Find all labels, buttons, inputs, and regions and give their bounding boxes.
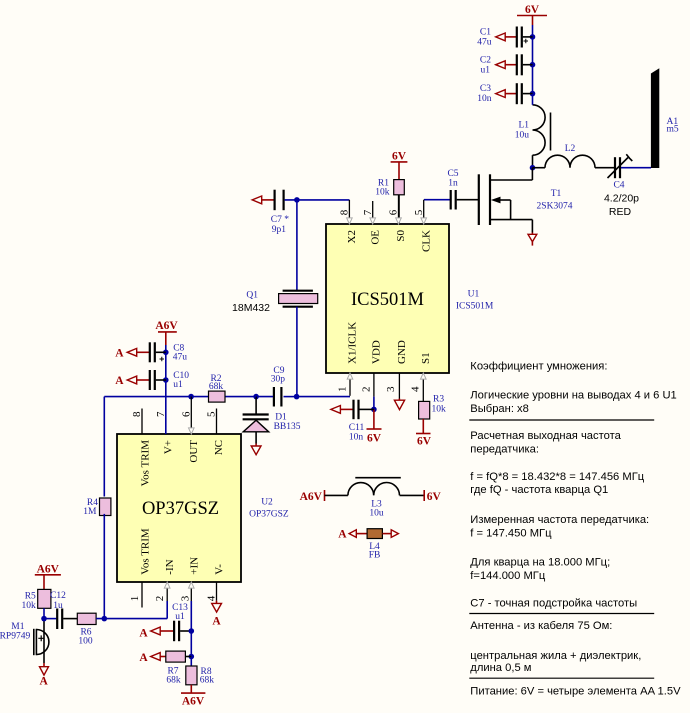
svg-text:L2: L2 bbox=[565, 144, 576, 154]
svg-text:C11: C11 bbox=[349, 423, 365, 433]
svg-text:V-: V- bbox=[214, 564, 226, 575]
svg-text:9p1: 9p1 bbox=[272, 225, 287, 235]
svg-text:C7 - точная подстройка частоты: C7 - точная подстройка частоты bbox=[470, 597, 637, 609]
svg-text:U1: U1 bbox=[468, 290, 480, 300]
svg-text:10k: 10k bbox=[375, 188, 390, 198]
svg-text:S1: S1 bbox=[420, 352, 432, 364]
svg-text:4: 4 bbox=[410, 386, 422, 392]
svg-text:100: 100 bbox=[78, 637, 93, 647]
svg-text:центральная жила + диэлектрик,: центральная жила + диэлектрик, bbox=[470, 650, 641, 662]
svg-text:2SK3074: 2SK3074 bbox=[537, 202, 573, 212]
svg-text:6V: 6V bbox=[367, 433, 382, 445]
svg-text:68k: 68k bbox=[200, 676, 215, 686]
svg-text:68k: 68k bbox=[166, 676, 181, 686]
svg-text:10k: 10k bbox=[432, 405, 447, 415]
svg-text:1M: 1M bbox=[83, 507, 97, 517]
svg-text:f = fQ*8 = 18.432*8 = 147.456: f = fQ*8 = 18.432*8 = 147.456 МГц bbox=[470, 471, 644, 483]
svg-text:RED: RED bbox=[609, 206, 632, 218]
svg-text:7: 7 bbox=[362, 209, 374, 215]
svg-text:6V: 6V bbox=[417, 436, 432, 448]
svg-text:3: 3 bbox=[180, 595, 192, 601]
svg-text:18M432: 18M432 bbox=[232, 302, 270, 314]
svg-text:CLK: CLK bbox=[420, 230, 432, 252]
svg-text:NC: NC bbox=[213, 440, 225, 455]
svg-text:A: A bbox=[139, 652, 148, 664]
svg-text:-IN: -IN bbox=[164, 559, 176, 574]
svg-text:6: 6 bbox=[180, 411, 192, 417]
svg-text:C2: C2 bbox=[480, 55, 491, 65]
svg-text:ICS501M: ICS501M bbox=[351, 290, 424, 310]
svg-text:L1: L1 bbox=[518, 121, 529, 131]
svg-text:u1: u1 bbox=[173, 380, 183, 390]
svg-text:FB: FB bbox=[369, 551, 381, 561]
svg-text:Q1: Q1 bbox=[246, 291, 258, 301]
svg-text:VDD: VDD bbox=[371, 340, 383, 364]
svg-text:A: A bbox=[40, 676, 49, 688]
svg-text:6V: 6V bbox=[427, 491, 442, 503]
svg-text:S0: S0 bbox=[395, 230, 407, 242]
svg-text:Питание: 6V = четыре элемента: Питание: 6V = четыре элемента AA 1.5V bbox=[470, 686, 681, 698]
svg-text:1: 1 bbox=[337, 387, 349, 393]
svg-text:10u: 10u bbox=[369, 509, 384, 519]
svg-text:передатчика:: передатчика: bbox=[470, 444, 539, 456]
svg-text:A6V: A6V bbox=[300, 491, 323, 503]
svg-text:C1: C1 bbox=[480, 28, 491, 38]
svg-text:Для кварца на 18.000 МГц;: Для кварца на 18.000 МГц; bbox=[470, 557, 610, 569]
svg-text:D1: D1 bbox=[275, 412, 287, 422]
svg-text:V+: V+ bbox=[163, 440, 175, 454]
svg-text:A: A bbox=[338, 529, 347, 541]
svg-text:Vos TRIM: Vos TRIM bbox=[139, 440, 151, 487]
svg-text:R5: R5 bbox=[25, 591, 36, 601]
svg-text:10k: 10k bbox=[22, 601, 37, 611]
svg-text:10u: 10u bbox=[515, 131, 530, 141]
svg-text:Логические уровни на выводах 4: Логические уровни на выводах 4 и 6 U1 bbox=[470, 390, 676, 402]
svg-text:OE: OE bbox=[369, 230, 381, 245]
svg-text:U2: U2 bbox=[261, 498, 273, 508]
svg-text:6V: 6V bbox=[525, 4, 540, 16]
svg-text:ICS501M: ICS501M bbox=[456, 302, 494, 312]
svg-text:1: 1 bbox=[129, 596, 141, 602]
svg-text:10n: 10n bbox=[349, 433, 364, 443]
svg-text:f=144.000 МГц: f=144.000 МГц bbox=[470, 570, 546, 582]
svg-text:6: 6 bbox=[388, 209, 400, 215]
svg-text:C4: C4 bbox=[613, 181, 624, 191]
svg-text:A: A bbox=[139, 628, 148, 640]
svg-text:X1/ICLK: X1/ICLK bbox=[347, 322, 359, 364]
svg-text:8: 8 bbox=[339, 209, 351, 215]
svg-text:4.2/20p: 4.2/20p bbox=[604, 193, 639, 205]
svg-text:OUT: OUT bbox=[188, 440, 200, 463]
svg-text:Выбран: x8: Выбран: x8 bbox=[470, 403, 529, 415]
svg-text:6V: 6V bbox=[392, 151, 407, 163]
svg-text:A: A bbox=[212, 616, 221, 628]
svg-text:10n: 10n bbox=[477, 94, 492, 104]
svg-text:T1: T1 bbox=[551, 189, 562, 199]
svg-text:A6V: A6V bbox=[182, 695, 205, 707]
svg-text:BB135: BB135 bbox=[274, 422, 301, 432]
svg-text:+IN: +IN bbox=[189, 557, 201, 575]
svg-text:A6V: A6V bbox=[37, 564, 60, 576]
svg-text:47u: 47u bbox=[477, 38, 492, 48]
svg-text:OP37GSZ: OP37GSZ bbox=[249, 510, 289, 520]
svg-text:8: 8 bbox=[131, 411, 143, 417]
svg-text:C5: C5 bbox=[447, 169, 458, 179]
svg-text:X2: X2 bbox=[346, 230, 358, 243]
svg-text:OP37GSZ: OP37GSZ bbox=[142, 499, 219, 519]
svg-text:Vos TRIM: Vos TRIM bbox=[139, 528, 151, 575]
svg-text:2: 2 bbox=[154, 596, 166, 602]
svg-text:где fQ - частота кварца Q1: где fQ - частота кварца Q1 bbox=[470, 484, 608, 496]
svg-text:m5: m5 bbox=[667, 125, 679, 135]
svg-text:30p: 30p bbox=[271, 375, 286, 385]
svg-text:3: 3 bbox=[385, 386, 397, 392]
svg-text:C3: C3 bbox=[480, 84, 491, 94]
svg-text:A: A bbox=[115, 375, 124, 387]
svg-text:длина 0,5 м: длина 0,5 м bbox=[470, 662, 531, 674]
svg-text:RP9749: RP9749 bbox=[0, 631, 30, 641]
svg-text:68k: 68k bbox=[209, 382, 224, 392]
svg-text:47u: 47u bbox=[173, 353, 188, 363]
svg-text:f = 147.450 МГц: f = 147.450 МГц bbox=[470, 528, 552, 540]
svg-text:A: A bbox=[115, 348, 124, 360]
svg-text:Коэффициент умножения:: Коэффициент умножения: bbox=[470, 361, 607, 373]
svg-text:2: 2 bbox=[361, 387, 373, 393]
svg-text:Антенна - из кабеля 75 Ом:: Антенна - из кабеля 75 Ом: bbox=[470, 620, 612, 632]
svg-text:1u: 1u bbox=[53, 601, 63, 611]
svg-text:R3: R3 bbox=[433, 395, 444, 405]
svg-text:1n: 1n bbox=[448, 179, 458, 189]
svg-text:u1: u1 bbox=[175, 612, 185, 622]
svg-text:GND: GND bbox=[396, 340, 408, 364]
svg-text:4: 4 bbox=[206, 595, 218, 601]
svg-text:u1: u1 bbox=[481, 65, 491, 75]
svg-text:5: 5 bbox=[206, 411, 218, 417]
svg-text:Измеренная частота передатчика: Измеренная частота передатчика: bbox=[470, 514, 649, 526]
svg-text:C7 *: C7 * bbox=[271, 215, 289, 225]
svg-text:Расчетная выходная частота: Расчетная выходная частота bbox=[470, 430, 621, 442]
svg-text:5: 5 bbox=[413, 209, 425, 215]
svg-text:A6V: A6V bbox=[155, 320, 178, 332]
svg-text:C12: C12 bbox=[50, 591, 66, 601]
